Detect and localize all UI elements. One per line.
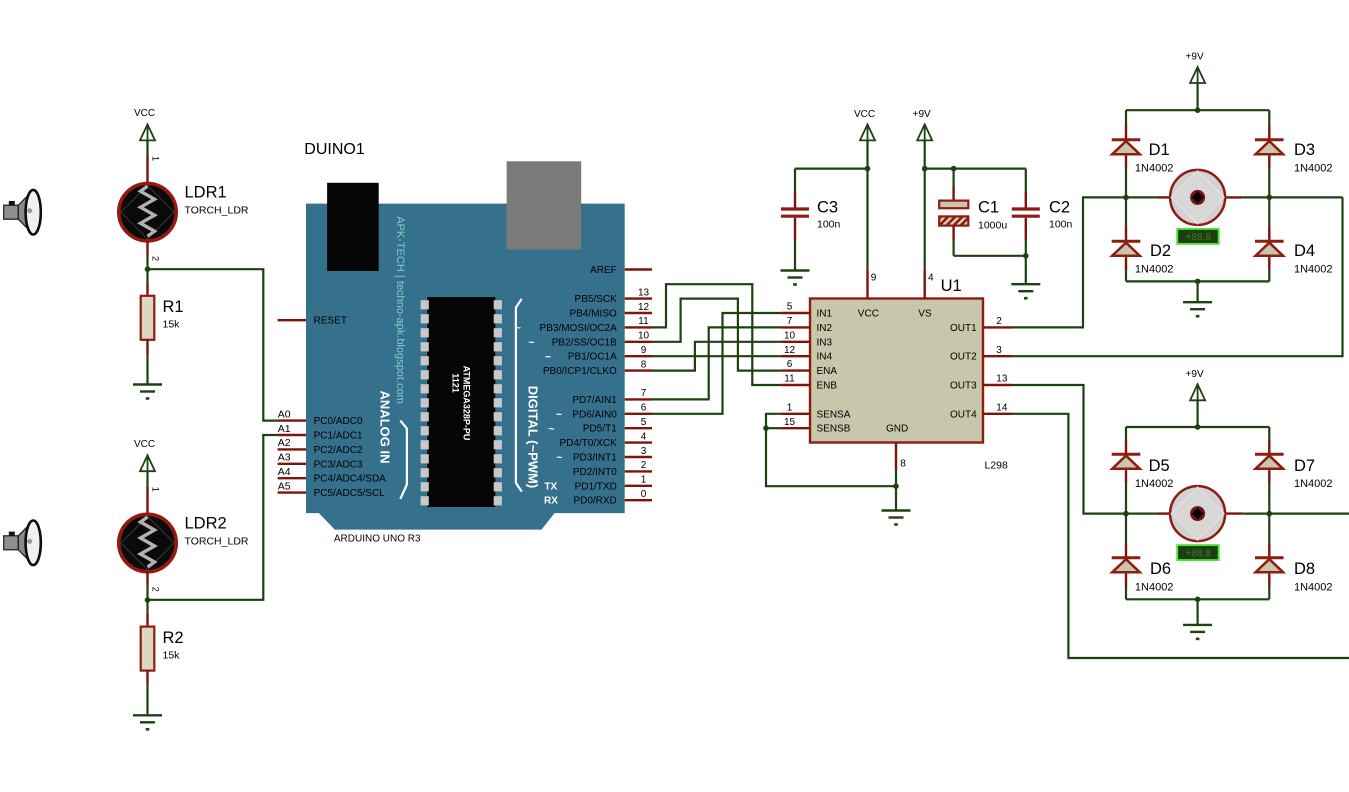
svg-text:100n: 100n	[817, 219, 841, 231]
svg-text:+88.8: +88.8	[1186, 232, 1212, 243]
svg-text:10: 10	[638, 331, 650, 342]
svg-text:AREF: AREF	[590, 265, 617, 276]
svg-text:9: 9	[641, 345, 647, 356]
svg-text:1N4002: 1N4002	[1135, 264, 1174, 276]
svg-text:A3: A3	[278, 452, 291, 464]
svg-text:ENA: ENA	[817, 366, 838, 377]
svg-text:3: 3	[641, 446, 647, 457]
svg-text:0: 0	[641, 489, 647, 500]
svg-text:PD7/AIN1: PD7/AIN1	[572, 395, 617, 406]
svg-text:D2: D2	[1150, 242, 1171, 260]
svg-text:R1: R1	[163, 298, 184, 316]
svg-text:PC3/ADC3: PC3/ADC3	[314, 459, 363, 470]
svg-text:OUT2: OUT2	[950, 352, 977, 363]
svg-text:~: ~	[528, 336, 534, 348]
svg-text:PC4/ADC4/SDA: PC4/ADC4/SDA	[314, 474, 387, 485]
svg-text:VCC: VCC	[134, 108, 155, 119]
svg-text:10: 10	[784, 330, 796, 341]
svg-text:IN2: IN2	[817, 323, 833, 334]
svg-text:~: ~	[556, 452, 562, 464]
svg-text:5: 5	[787, 302, 793, 313]
svg-text:RESET: RESET	[314, 316, 347, 327]
svg-text:PC0/ADC0: PC0/ADC0	[314, 416, 363, 427]
svg-text:15: 15	[784, 417, 796, 428]
svg-text:U1: U1	[941, 277, 962, 295]
svg-text:PD2/INT0: PD2/INT0	[573, 467, 617, 478]
svg-text:D8: D8	[1294, 560, 1315, 578]
svg-text:2: 2	[641, 460, 647, 471]
svg-text:~: ~	[556, 408, 562, 420]
svg-text:1N4002: 1N4002	[1294, 264, 1333, 276]
svg-text:D6: D6	[1150, 560, 1171, 578]
svg-text:8: 8	[900, 459, 906, 470]
svg-text:RX: RX	[544, 496, 558, 507]
svg-text:3: 3	[996, 345, 1002, 356]
svg-text:5: 5	[641, 417, 647, 428]
svg-text:PC5/ADC5/SCL: PC5/ADC5/SCL	[314, 488, 386, 499]
svg-text:1N4002: 1N4002	[1135, 478, 1174, 490]
svg-text:PB3/MOSI/OC2A: PB3/MOSI/OC2A	[540, 323, 618, 334]
svg-text:12: 12	[638, 302, 650, 313]
svg-text:GND: GND	[886, 424, 908, 435]
svg-text:+9V: +9V	[1186, 52, 1204, 63]
svg-text:~: ~	[545, 351, 551, 363]
svg-text:PC2/ADC2: PC2/ADC2	[314, 445, 363, 456]
svg-text:1N4002: 1N4002	[1294, 162, 1333, 174]
svg-text:11: 11	[784, 374, 795, 385]
svg-text:TX: TX	[544, 481, 557, 492]
svg-text:VS: VS	[918, 309, 932, 320]
svg-text:D4: D4	[1294, 242, 1315, 260]
svg-text:DIGITAL (~PWM): DIGITAL (~PWM)	[526, 386, 541, 488]
svg-text:ARDUINO UNO R3: ARDUINO UNO R3	[334, 534, 421, 545]
svg-text:PB5/SCK: PB5/SCK	[575, 294, 618, 305]
svg-text:OUT4: OUT4	[950, 409, 977, 420]
svg-text:D3: D3	[1294, 141, 1315, 159]
svg-text:15k: 15k	[163, 319, 181, 331]
svg-text:11: 11	[638, 316, 649, 327]
svg-text:7: 7	[787, 316, 793, 327]
svg-text:APK-TECH | techno-apk.blogspot: APK-TECH | techno-apk.blogspot.com	[394, 216, 406, 404]
svg-text:ATMEGA328P-PU: ATMEGA328P-PU	[462, 366, 472, 441]
svg-text:LDR1: LDR1	[185, 184, 227, 202]
svg-text:1: 1	[151, 487, 161, 492]
svg-text:L298: L298	[985, 460, 1009, 472]
svg-text:A0: A0	[278, 408, 291, 420]
svg-text:PD3/INT1: PD3/INT1	[573, 453, 617, 464]
svg-text:SENSA: SENSA	[817, 409, 851, 420]
svg-text:PD6/AIN0: PD6/AIN0	[572, 409, 617, 420]
svg-text:13: 13	[638, 287, 650, 298]
svg-text:D5: D5	[1149, 457, 1170, 475]
svg-text:PB0/ICP1/CLKO: PB0/ICP1/CLKO	[543, 366, 617, 377]
svg-text:1000u: 1000u	[978, 220, 1007, 232]
svg-text:D1: D1	[1149, 141, 1170, 159]
svg-text:A1: A1	[278, 423, 291, 435]
svg-text:PD4/T0/XCK: PD4/T0/XCK	[560, 438, 618, 449]
svg-text:PB4/MISO: PB4/MISO	[570, 309, 617, 320]
svg-text:1: 1	[641, 475, 647, 486]
svg-text:ANALOG IN: ANALOG IN	[378, 391, 393, 464]
svg-text:A5: A5	[278, 480, 291, 492]
svg-text:C3: C3	[817, 199, 838, 217]
svg-text:D7: D7	[1294, 457, 1315, 475]
svg-text:PD5/T1: PD5/T1	[583, 424, 617, 435]
svg-text:+88.8: +88.8	[1186, 548, 1212, 559]
svg-text:+9V: +9V	[913, 109, 931, 120]
svg-text:12: 12	[784, 345, 796, 356]
svg-text:DUINO1: DUINO1	[304, 141, 365, 158]
svg-text:SENSB: SENSB	[817, 424, 851, 435]
svg-text:IN4: IN4	[817, 352, 833, 363]
svg-text:A2: A2	[278, 437, 291, 449]
svg-text:TORCH_LDR: TORCH_LDR	[185, 205, 249, 217]
svg-text:VCC: VCC	[854, 109, 875, 120]
svg-text:15k: 15k	[163, 649, 181, 661]
svg-text:2: 2	[151, 587, 161, 592]
svg-text:OUT3: OUT3	[950, 381, 977, 392]
svg-text:PB1/OC1A: PB1/OC1A	[568, 352, 617, 363]
svg-text:~: ~	[515, 322, 521, 334]
svg-text:OUT1: OUT1	[950, 323, 977, 334]
svg-text:~: ~	[548, 423, 554, 435]
svg-text:PD0/RXD: PD0/RXD	[573, 496, 616, 507]
svg-text:7: 7	[641, 388, 647, 399]
svg-text:IN3: IN3	[817, 337, 833, 348]
svg-text:1121: 1121	[451, 373, 461, 393]
svg-text:2: 2	[151, 256, 161, 261]
svg-text:PC1/ADC1: PC1/ADC1	[314, 431, 363, 442]
svg-text:9: 9	[871, 273, 877, 284]
svg-text:PD1/TXD: PD1/TXD	[575, 481, 617, 492]
svg-text:A4: A4	[278, 466, 291, 478]
svg-text:2: 2	[996, 316, 1002, 327]
svg-text:VCC: VCC	[134, 439, 155, 450]
svg-text:TORCH_LDR: TORCH_LDR	[185, 535, 249, 547]
svg-text:6: 6	[641, 403, 647, 414]
svg-text:IN1: IN1	[817, 309, 833, 320]
svg-text:C1: C1	[978, 199, 999, 217]
svg-text:+9V: +9V	[1186, 369, 1204, 380]
svg-text:LDR2: LDR2	[185, 514, 227, 532]
svg-text:1N4002: 1N4002	[1294, 478, 1333, 490]
svg-text:100n: 100n	[1049, 219, 1073, 231]
svg-text:1N4002: 1N4002	[1135, 162, 1174, 174]
svg-text:1: 1	[787, 402, 793, 413]
svg-text:1: 1	[151, 156, 161, 161]
svg-text:8: 8	[641, 359, 647, 370]
svg-text:1N4002: 1N4002	[1135, 582, 1174, 594]
svg-text:C2: C2	[1049, 199, 1070, 217]
svg-text:ENB: ENB	[817, 381, 838, 392]
svg-text:6: 6	[787, 359, 793, 370]
svg-text:PB2/SS/OC1B: PB2/SS/OC1B	[552, 337, 617, 348]
svg-text:4: 4	[641, 431, 647, 442]
svg-text:1N4002: 1N4002	[1294, 582, 1333, 594]
svg-text:VCC: VCC	[858, 309, 879, 320]
svg-text:4: 4	[928, 273, 934, 284]
svg-text:13: 13	[996, 374, 1008, 385]
svg-text:R2: R2	[163, 629, 184, 647]
svg-text:14: 14	[996, 402, 1008, 413]
